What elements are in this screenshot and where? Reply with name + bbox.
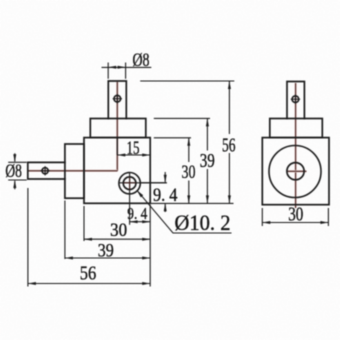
dim 9.4 right: center extension line [140, 182, 167, 184]
dim 56 bottom: dimension line [28, 283, 150, 285]
dim 39 vertical: line [206, 118, 208, 150]
dim 15: arrows [117, 154, 125, 157]
extension line shaft top right [140, 80, 234, 82]
leader Ø10.2: arrow [137, 190, 143, 197]
dim 9.4 bottom: dimension line [130, 221, 151, 223]
top shaft [108, 81, 126, 119]
extension line boss top right [154, 117, 210, 119]
svg-text:15: 15 [127, 138, 140, 159]
main hole inner circle [123, 177, 136, 190]
extension line body bottom right [150, 202, 233, 204]
extension line body right edge down [149, 205, 151, 287]
dim 15: dimension line [117, 154, 150, 156]
dim 30 bottom: dimension line [84, 238, 150, 240]
side shaft [287, 82, 304, 119]
svg-text:30: 30 [288, 204, 303, 226]
top boss [90, 119, 146, 138]
extension line left boss edge down [64, 201, 66, 260]
main hole outer circle [119, 173, 140, 194]
svg-text:39: 39 [98, 241, 114, 261]
dim 15: left edge (black over centerline) [116, 138, 118, 155]
dim Ø8 top: dimension line [102, 66, 152, 68]
side horizontal red centerline [287, 170, 307, 172]
side shaft hole [291, 95, 300, 104]
svg-text:56: 56 [80, 263, 97, 285]
side square [262, 138, 329, 205]
side vertical red centerline [294, 83, 296, 208]
dim Ø8 top: extension lines [102, 63, 152, 79]
side boss [270, 119, 323, 138]
main hole crosshair vertical [129, 172, 131, 224]
svg-text:Ø8: Ø8 [5, 162, 22, 182]
extension line body top right [154, 137, 191, 139]
main hole crosshair horizontal [119, 182, 167, 184]
svg-text:30: 30 [110, 221, 127, 241]
dim 56 vertical: line [228, 81, 230, 134]
horizontal red centerline (left shaft axis) [28, 170, 118, 172]
svg-text:9. 4: 9. 4 [127, 204, 147, 223]
body main block [84, 138, 150, 204]
svg-text:Ø10. 2: Ø10. 2 [175, 210, 231, 235]
dim Ø8 left: arrows [13, 154, 16, 162]
svg-text:Ø8: Ø8 [133, 51, 150, 71]
dim 9.4 right: arrow segments [164, 172, 166, 182]
left shaft [28, 162, 65, 179]
svg-text:30: 30 [182, 162, 196, 183]
leader Ø10.2: line [137, 190, 232, 233]
left shaft hole [40, 166, 49, 175]
dim Ø8 top: arrows [108, 66, 116, 69]
dim Ø8 left: extension lines [8, 153, 27, 189]
extension line body left edge down [83, 206, 85, 241]
top shaft hole [113, 94, 122, 103]
side big circle [269, 146, 321, 198]
side small circle [287, 163, 304, 180]
svg-text:39: 39 [200, 150, 215, 172]
dim 30 side: dimension line [262, 222, 328, 224]
dim 30 side: extension ticks [261, 208, 263, 226]
vertical red centerline (top shaft axis) [116, 82, 118, 171]
svg-text:56: 56 [222, 134, 236, 156]
left boss [65, 144, 84, 198]
dim 9.4 bottom: arrows [130, 220, 138, 223]
extension line left shaft end down [27, 188, 29, 287]
main hole red cross [124, 177, 136, 189]
dim 30 vertical: line [188, 138, 190, 162]
dim 39 bottom: dimension line [65, 257, 150, 259]
